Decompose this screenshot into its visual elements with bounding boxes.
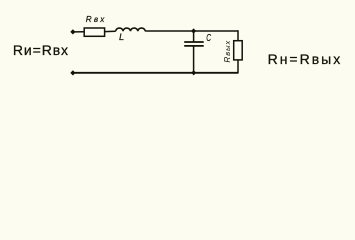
wire resistor Rвых to bottom rail — [237, 60, 239, 74]
svg-text:Rвых: Rвых — [223, 40, 232, 63]
node junction top (capacitor tap) — [191, 28, 196, 33]
wire bottom rail — [75, 72, 239, 74]
capacitor C — [184, 42, 204, 46]
svg-text:L: L — [119, 31, 124, 42]
svg-text:Rн=Rвых: Rн=Rвых — [268, 51, 343, 67]
node input terminal top-left — [70, 29, 75, 34]
node junction bottom — [191, 70, 196, 75]
node input terminal bottom-left — [70, 70, 75, 75]
wire inductor to corner (top rail) — [145, 30, 238, 32]
inductor L — [116, 28, 146, 31]
wire capacitor bottom plate to bottom rail — [193, 46, 195, 73]
svg-text:Rвх: Rвх — [86, 15, 107, 24]
wire junction to capacitor top plate — [193, 31, 195, 42]
wire top-right corner down to resistor Rвых — [237, 30, 239, 41]
wire terminal to resistor — [75, 31, 85, 33]
svg-text:C: C — [206, 33, 211, 44]
resistor Rвх — [84, 28, 104, 36]
svg-text:Rи=Rвх: Rи=Rвх — [13, 42, 69, 58]
wire resistor to inductor — [105, 30, 116, 32]
resistor Rвых — [234, 41, 243, 60]
